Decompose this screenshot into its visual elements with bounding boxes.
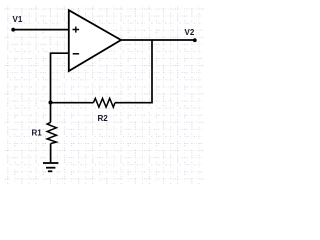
ground	[43, 163, 58, 171]
svg-text:R1: R1	[32, 128, 43, 137]
pin - (inverting)	[73, 53, 79, 55]
wire junction down to R1	[50, 103, 52, 123]
wire feedback tap from output down to R2	[115, 40, 152, 103]
pin + (non-inverting)	[73, 27, 80, 33]
svg-text:V1: V1	[13, 15, 23, 24]
node V2	[185, 28, 197, 42]
resistor R1	[32, 122, 57, 143]
wire inverting input to feedback junction	[51, 53, 69, 102]
junction node	[49, 101, 53, 105]
svg-text:R2: R2	[98, 114, 109, 123]
wire V1 to op-amp non-inverting input	[13, 29, 69, 31]
resistor R2	[93, 98, 115, 122]
wire op-amp output to V2	[121, 39, 195, 41]
op-amp U1	[69, 10, 121, 71]
svg-text:V2: V2	[185, 28, 195, 37]
node V1	[11, 15, 23, 32]
wire R2 left lead to junction	[51, 102, 94, 104]
wire R1 bottom lead to ground	[50, 144, 52, 163]
